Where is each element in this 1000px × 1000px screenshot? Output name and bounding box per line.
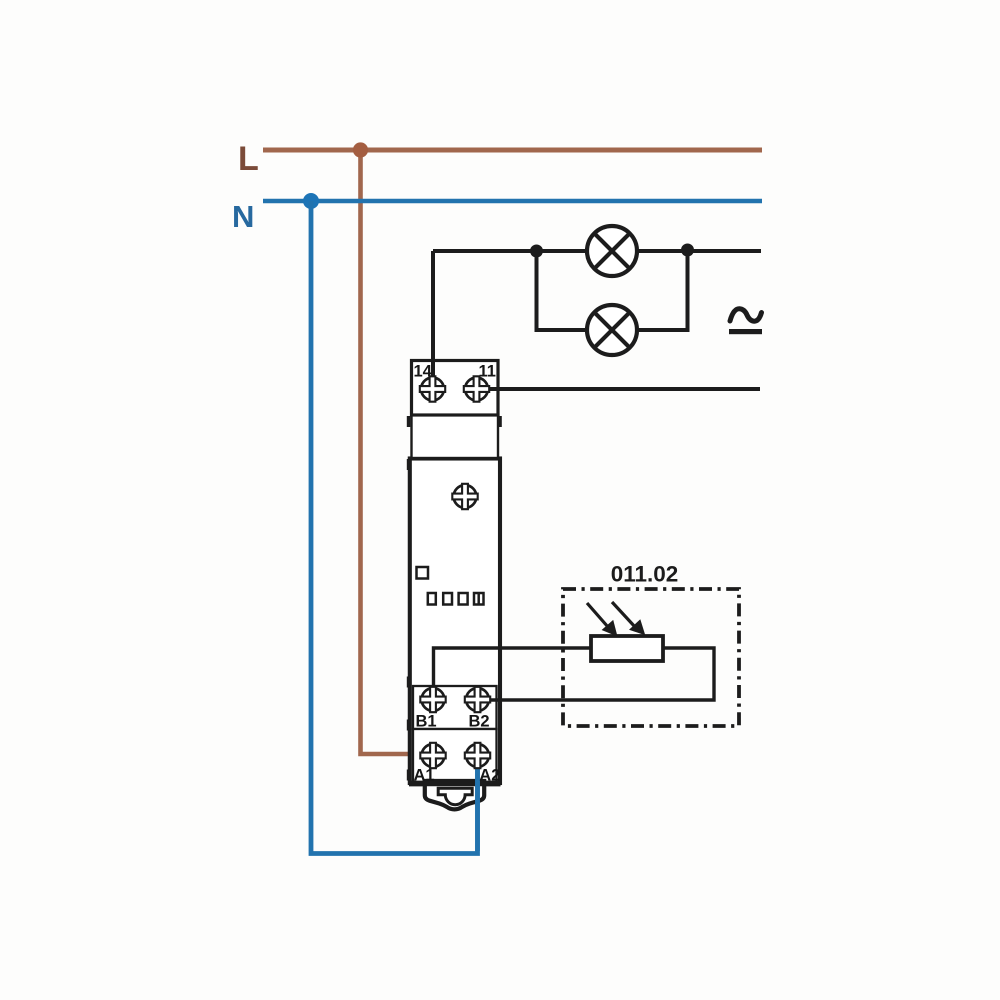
svg-text:N: N bbox=[232, 199, 254, 234]
svg-text:L: L bbox=[238, 140, 259, 178]
svg-text:14: 14 bbox=[414, 363, 433, 381]
svg-text:B2: B2 bbox=[469, 713, 490, 731]
svg-text:11: 11 bbox=[479, 363, 496, 381]
svg-text:A1: A1 bbox=[414, 767, 435, 785]
svg-text:A2: A2 bbox=[479, 767, 500, 785]
svg-text:B1: B1 bbox=[416, 713, 437, 731]
svg-text:011.02: 011.02 bbox=[611, 562, 679, 587]
